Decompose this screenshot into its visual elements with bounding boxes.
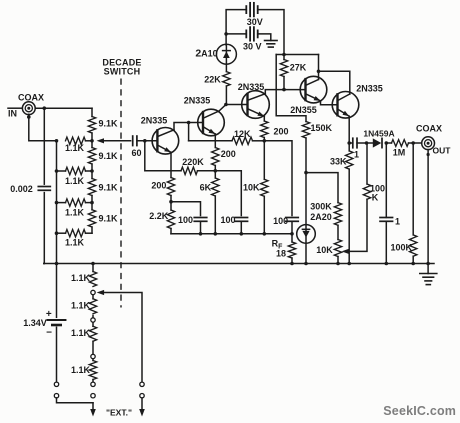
wire 2.2K bottom to RC bus bbox=[170, 229, 172, 234]
battery B3 1.34V bbox=[48, 320, 66, 325]
resistor R1 1.1K row1 bbox=[66, 137, 86, 144]
svg-text:2N335: 2N335 bbox=[184, 95, 211, 105]
label 10K pot bbox=[316, 245, 333, 255]
node 33K bus junction bbox=[347, 262, 351, 266]
capacitor C7 1 bbox=[380, 218, 393, 222]
svg-text:18: 18 bbox=[276, 249, 286, 259]
terminal chain node 2 bbox=[91, 318, 95, 322]
wire 12K right to Q3 emitter node bbox=[253, 140, 265, 142]
svg-text:2N355: 2N355 bbox=[290, 105, 317, 115]
label 1.1K row4 bbox=[65, 238, 85, 248]
wire coax out shield down bbox=[427, 150, 430, 264]
label 1.1K row3 bbox=[65, 208, 85, 218]
node 10K bus junction bbox=[263, 232, 267, 236]
node 100K bus junction bbox=[411, 262, 415, 266]
label 100 C5 bbox=[273, 216, 288, 226]
wire battery rail left corner bbox=[226, 10, 246, 34]
terminal chain node 1 bbox=[91, 290, 95, 294]
wire 9.1K chain top bbox=[91, 108, 93, 116]
wire R17 to 12K node bbox=[263, 138, 265, 141]
resistor R8 9.1K bbox=[88, 210, 95, 227]
svg-text:100: 100 bbox=[220, 215, 235, 225]
svg-text:1.1K: 1.1K bbox=[65, 143, 85, 153]
svg-text:COAX: COAX bbox=[18, 92, 44, 102]
label 22K bbox=[204, 75, 221, 85]
resistor R30 1.1K lower4 bbox=[89, 359, 96, 382]
svg-text:200: 200 bbox=[273, 127, 288, 137]
node C4 bus junction bbox=[240, 232, 244, 236]
capacitor C3 100 bbox=[194, 218, 207, 222]
svg-text:9.1K: 9.1K bbox=[99, 118, 119, 128]
ground symbol right bbox=[420, 274, 437, 285]
wire Q3 emitter down bbox=[263, 116, 265, 121]
svg-text:1.34V: 1.34V bbox=[23, 318, 47, 328]
resistor R26 100K bbox=[410, 235, 417, 256]
label plus bbox=[46, 309, 52, 320]
resistor R3 1.1K row3 bbox=[57, 199, 93, 206]
label 1.1K lower1 bbox=[71, 273, 91, 283]
svg-text:2.2K: 2.2K bbox=[149, 211, 169, 221]
label 1.1K lower3 bbox=[71, 328, 91, 338]
label K (of 100K) bbox=[372, 193, 379, 203]
ext arrow right bbox=[139, 398, 145, 417]
svg-text:1.1K: 1.1K bbox=[71, 365, 91, 375]
wire lower chain top bbox=[92, 264, 94, 272]
svg-text:−: − bbox=[46, 328, 52, 339]
wire 100K-stacked top lead bbox=[366, 144, 368, 185]
decade switch wiper arrow (selector) bbox=[97, 138, 131, 143]
wire chain seg2 bbox=[91, 164, 93, 179]
node decade tap 3 bbox=[90, 201, 94, 205]
label 9.1K (2) bbox=[99, 151, 119, 161]
transistor Q4 2N355 bbox=[300, 76, 327, 103]
label 100 C4 bbox=[220, 215, 235, 225]
node C7 bus junction bbox=[385, 262, 389, 266]
resistor R6 9.1K bbox=[88, 148, 95, 165]
label 1M bbox=[393, 148, 406, 158]
resistor R22 10K (pot) bbox=[334, 240, 341, 257]
svg-text:2N335: 2N335 bbox=[238, 82, 265, 92]
resistor R26 100K output leads bbox=[412, 143, 414, 264]
resistor R16 RF 18 bbox=[288, 242, 295, 258]
battery B1 30V bbox=[246, 3, 257, 17]
wire 27K leads bbox=[283, 55, 285, 90]
svg-text:1: 1 bbox=[395, 217, 400, 227]
label 2N355 Q4 bbox=[290, 105, 317, 115]
node 6K bus junction bbox=[214, 232, 218, 236]
terminal chain bottom B bbox=[91, 394, 95, 398]
resistor R17 200 (Q3 emitter) bbox=[261, 121, 268, 138]
wire node to 10K bbox=[263, 141, 265, 180]
resistor R23 1M bbox=[392, 140, 409, 147]
diode D3 1N459A bbox=[373, 138, 382, 147]
svg-text:300K: 300K bbox=[310, 202, 332, 212]
svg-text:200: 200 bbox=[151, 180, 166, 190]
ground bus wire bbox=[44, 263, 434, 265]
node Q4 collector junction bbox=[317, 70, 321, 74]
wire input top from COAX IN to 9.1K chain bbox=[8, 107, 92, 109]
label 2N335 Q5 bbox=[356, 84, 383, 94]
svg-text:1.1K: 1.1K bbox=[71, 328, 91, 338]
diode D1 2A10 bbox=[216, 44, 236, 64]
capacitor C1 0.002 bbox=[38, 187, 50, 191]
node Q5 emitter output node bbox=[347, 141, 351, 145]
label 1 C6 bbox=[354, 150, 359, 160]
svg-text:SWITCH: SWITCH bbox=[104, 66, 141, 76]
svg-text:OUT: OUT bbox=[433, 146, 452, 156]
coax connector J1 input bbox=[22, 102, 35, 115]
wire bus to ground right bbox=[427, 264, 429, 274]
terminal battery bottom B bbox=[54, 394, 58, 398]
node row3 left bbox=[55, 201, 59, 205]
svg-text:1M: 1M bbox=[393, 148, 406, 158]
label 200 Q2 emitter bbox=[221, 149, 236, 159]
resistor R14 12K bbox=[232, 137, 253, 144]
resistor R2 1.1K row2 bbox=[57, 167, 93, 174]
node 2A20 bus junction bbox=[304, 262, 308, 266]
svg-text:200: 200 bbox=[221, 149, 236, 159]
left rail wire bbox=[56, 141, 58, 264]
node Q2 base branch bbox=[187, 121, 191, 125]
svg-text:1.1K: 1.1K bbox=[71, 273, 91, 283]
resistor R25 100K stacked bbox=[363, 184, 370, 199]
svg-text:1.1K: 1.1K bbox=[65, 238, 85, 248]
battery B2 30V bbox=[246, 27, 257, 41]
resistor R13 6K bbox=[212, 178, 219, 196]
wire Q3 collector up and right bbox=[265, 90, 305, 94]
label 33K bbox=[330, 156, 347, 166]
capacitor C5 100 bbox=[286, 218, 299, 222]
wire Q1 base feedback down-right bbox=[145, 141, 181, 171]
label 150K bbox=[311, 123, 333, 133]
label 0.002 bbox=[10, 184, 33, 194]
transistor Q5 2N335 bbox=[332, 92, 359, 119]
label 2A20 bbox=[310, 212, 332, 222]
svg-text:1: 1 bbox=[354, 150, 359, 160]
node Q1 base junction bbox=[143, 139, 147, 143]
svg-text:6K: 6K bbox=[200, 183, 212, 193]
terminal battery bottom A bbox=[54, 382, 58, 386]
svg-text:+: + bbox=[46, 309, 52, 320]
node 100K-stacked top bbox=[365, 141, 369, 145]
wire Q3 emitter node right bbox=[264, 141, 292, 216]
node Q2 collector / Q3 base junction bbox=[224, 103, 228, 107]
wire 10K to ground bus bbox=[337, 257, 339, 264]
RC bus wire bbox=[171, 233, 292, 235]
label 30V B1 bbox=[247, 17, 263, 27]
svg-text:2A20: 2A20 bbox=[310, 212, 332, 222]
wire chain seg a bbox=[92, 295, 94, 299]
label 9.1K (3) bbox=[99, 182, 119, 192]
wire R10 to node bbox=[170, 196, 172, 211]
svg-text:220K: 220K bbox=[182, 157, 204, 167]
label 220K bbox=[182, 157, 204, 167]
transistor Q3 2N335 bbox=[242, 91, 270, 119]
svg-text:K: K bbox=[372, 193, 379, 203]
capacitor C7 1 leads bbox=[385, 143, 387, 264]
node 27K top bbox=[282, 53, 286, 57]
label 200 Q3 emitter bbox=[273, 127, 288, 137]
label 1N459A bbox=[363, 129, 394, 139]
wire Q5 emitter down to output line bbox=[348, 116, 350, 143]
resistor R24 33K leads bbox=[348, 143, 350, 264]
label 9.1K (1) bbox=[99, 118, 119, 128]
resistor R18 22K bbox=[223, 72, 230, 86]
transistor Q2 2N335 bbox=[198, 109, 225, 136]
capacitor C2 60 bbox=[133, 136, 137, 146]
node decade chain bus junction bbox=[91, 262, 95, 266]
label OUT bbox=[433, 146, 452, 156]
label 1.1K lower2 bbox=[71, 300, 91, 310]
terminal ext A bbox=[140, 382, 144, 386]
wire rail right corner to Q4 collector bbox=[318, 55, 320, 72]
node decade tap 1 bbox=[90, 139, 94, 143]
svg-text:100K: 100K bbox=[390, 242, 412, 252]
svg-text:2N335: 2N335 bbox=[141, 115, 168, 125]
node row1 left rail junction bbox=[55, 139, 59, 143]
resistor R27 1.1K lower1 bbox=[89, 272, 96, 287]
ext wiper arrow line bbox=[97, 290, 142, 382]
svg-text:30 V: 30 V bbox=[243, 42, 262, 52]
resistor R4 1.1K row4 bbox=[57, 230, 93, 237]
capacitor C4 100 bbox=[235, 218, 248, 222]
watermark SeekIC.com bbox=[383, 404, 456, 418]
resistor R12 200 (Q2 emitter) bbox=[212, 148, 219, 166]
wire Q4 emitter to Q5 base bbox=[321, 101, 338, 105]
svg-text:2N335: 2N335 bbox=[356, 84, 383, 94]
resistor R15 10K bbox=[261, 179, 268, 196]
wire battery B1 right to 27K top bbox=[258, 10, 284, 55]
wire Q2 collector node to Q3 base bbox=[226, 104, 248, 106]
label 2N335 Q2 bbox=[184, 95, 211, 105]
label EXT bbox=[106, 407, 132, 417]
label 9.1K (4) bbox=[99, 214, 119, 224]
wire collector rail to Q5 bbox=[319, 71, 350, 94]
svg-text:0.002: 0.002 bbox=[10, 184, 33, 194]
node output junction bbox=[411, 141, 415, 145]
node 27K bottom junction bbox=[282, 88, 286, 92]
transistor Q1 2N335 bbox=[152, 128, 179, 155]
wire 0.002 branch down bbox=[43, 108, 45, 263]
label 100 (of 100K) bbox=[370, 184, 385, 194]
wire chain seg b bbox=[92, 316, 94, 327]
resistor R29 1.1K lower3 bbox=[89, 326, 96, 341]
label RF bbox=[272, 239, 284, 251]
wire node to C3 cap bbox=[171, 202, 201, 216]
node 10K bus junction 2 bbox=[336, 262, 340, 266]
label COAX (input) bbox=[18, 92, 44, 102]
node coax shield bus junction bbox=[426, 262, 430, 266]
node C3 bus junction bbox=[199, 232, 203, 236]
label 1.1K row2 bbox=[65, 176, 85, 186]
wire battery node to 2A10 bbox=[225, 34, 227, 72]
wire 150K down to divider node bbox=[305, 138, 307, 264]
svg-text:COAX: COAX bbox=[416, 124, 442, 134]
label SWITCH bbox=[104, 66, 141, 76]
label 1.34V bbox=[23, 318, 47, 328]
resistor R24 33K bbox=[346, 151, 353, 169]
wire Q1 emitter down bbox=[170, 152, 172, 177]
wire output line segs bbox=[349, 142, 364, 144]
capacitor C6 1 (output) bbox=[353, 138, 357, 148]
node row2 left bbox=[55, 169, 59, 173]
wire 22K to Q2 collector node bbox=[225, 86, 228, 105]
svg-text:1.1K: 1.1K bbox=[65, 208, 85, 218]
wire B2 left lead bbox=[226, 33, 246, 35]
wire bias line from rail to 150K bbox=[276, 55, 306, 122]
wire RF node down bbox=[291, 234, 293, 242]
resistor R21 300K bbox=[334, 203, 341, 226]
svg-text:60: 60 bbox=[131, 148, 141, 158]
label DECADE bbox=[102, 58, 141, 68]
svg-text:"EXT.": "EXT." bbox=[106, 407, 132, 417]
label COAX out bbox=[416, 124, 442, 134]
wire chain seg3 bbox=[91, 196, 93, 210]
label 100K bbox=[390, 242, 412, 252]
wire C3 to RC bus bbox=[200, 221, 202, 233]
wire battery column bbox=[56, 264, 58, 383]
svg-text:2A10: 2A10 bbox=[195, 48, 217, 60]
label 27K bbox=[290, 63, 307, 73]
svg-text:9.1K: 9.1K bbox=[99, 151, 119, 161]
node Q1 emitter RC node bbox=[169, 200, 173, 204]
coax connector J2 output bbox=[422, 137, 435, 150]
node row4 left bbox=[55, 231, 59, 235]
wire RF to ground bus bbox=[291, 258, 293, 264]
svg-text:9.1K: 9.1K bbox=[99, 182, 119, 192]
wire 220K to Q2 emitter node bbox=[198, 170, 216, 172]
resistor R5 9.1K bbox=[88, 117, 95, 134]
wire +30V rail bbox=[276, 54, 318, 56]
label 2N335 Q1 bbox=[141, 115, 168, 125]
svg-text:150K: 150K bbox=[311, 123, 333, 133]
node Q2 emitter node bbox=[214, 169, 218, 173]
decade switch dashed line bbox=[120, 79, 122, 308]
svg-text:10K: 10K bbox=[316, 245, 333, 255]
wire emitter node to C4 bbox=[215, 171, 241, 216]
label IN bbox=[8, 108, 17, 118]
svg-text:22K: 22K bbox=[204, 75, 221, 85]
node divider node (150K/300K/2A20) bbox=[304, 171, 308, 175]
node junction on input wire (0.002 branch) bbox=[43, 106, 47, 110]
resistor R10 200 (Q1 emitter) bbox=[167, 178, 174, 196]
wire 12K line left bbox=[189, 140, 232, 142]
wire chain seg c bbox=[92, 341, 94, 354]
label 18 bbox=[276, 249, 286, 259]
terminal ext B bbox=[140, 394, 144, 398]
label 2N335 Q3 bbox=[238, 82, 265, 92]
resistor R19 27K bbox=[280, 60, 287, 77]
label 300K bbox=[310, 202, 332, 212]
wire C2 to Q1 base bbox=[137, 140, 157, 142]
resistor R9 220K bbox=[181, 167, 198, 174]
wire 300K to 10K bbox=[337, 225, 339, 239]
label 12K bbox=[234, 129, 251, 139]
terminal chain node 3 bbox=[91, 354, 95, 358]
svg-text:10K: 10K bbox=[243, 183, 260, 193]
svg-text:12K: 12K bbox=[234, 129, 251, 139]
wire Q2 emitter down bbox=[214, 134, 216, 148]
wire 1M to coax out bbox=[409, 142, 422, 144]
svg-text:IN: IN bbox=[8, 108, 17, 118]
svg-text:9.1K: 9.1K bbox=[99, 214, 119, 224]
wire divider node right to 300K bbox=[306, 173, 338, 203]
label 1.1K lower4 bbox=[71, 365, 91, 375]
resistor R11 2.2K bbox=[167, 210, 174, 229]
ext arrow left bbox=[90, 403, 96, 417]
svg-text:SeekIC.com: SeekIC.com bbox=[383, 404, 456, 418]
wire COAX IN center conductor down to decade row 1 bbox=[27, 114, 57, 141]
label 100 C3 bbox=[178, 215, 193, 225]
svg-text:100: 100 bbox=[178, 215, 193, 225]
wire Q1 collector up to Q2 base bbox=[174, 123, 203, 130]
node battery rail bus junction bbox=[55, 262, 59, 266]
node Q3 emitter node bbox=[263, 139, 267, 143]
label 60 bbox=[131, 148, 141, 158]
node RF top junction bbox=[290, 232, 294, 236]
svg-text:100: 100 bbox=[273, 216, 288, 226]
wire B2 right to ground bbox=[258, 34, 271, 41]
label 6K bbox=[200, 183, 212, 193]
wire diode to 1M bbox=[386, 142, 391, 144]
svg-text:1.1K: 1.1K bbox=[65, 176, 85, 186]
label 2A10 bbox=[195, 48, 217, 60]
svg-text:33K: 33K bbox=[330, 156, 347, 166]
wire C4 to RC bus bbox=[240, 221, 242, 233]
wire chain bottom to row4 bbox=[91, 227, 93, 233]
node battery junction bbox=[224, 32, 228, 36]
label 2.2K bbox=[149, 211, 169, 221]
wire chain seg1 bbox=[91, 133, 93, 148]
node decade tap 2 bbox=[90, 169, 94, 173]
wire Q4 collector lead bbox=[318, 71, 320, 79]
wiper arrow for 10K pot bbox=[342, 199, 368, 254]
wire to diode bbox=[367, 142, 373, 144]
wire R12 to node bbox=[214, 166, 216, 179]
resistor R7 9.1K bbox=[88, 179, 95, 196]
resistor R20 150K bbox=[302, 122, 309, 139]
wire C5 to RF node bbox=[291, 221, 293, 233]
resistor R28 1.1K lower2 bbox=[89, 299, 96, 314]
label minus bbox=[46, 328, 52, 339]
svg-text:1N459A: 1N459A bbox=[363, 129, 394, 139]
terminal chain bottom A bbox=[91, 382, 95, 386]
label 200 Q1 emitter bbox=[151, 180, 166, 190]
node RF bus junction bbox=[290, 262, 294, 266]
svg-text:1.1K: 1.1K bbox=[71, 300, 91, 310]
svg-text:30V: 30V bbox=[247, 17, 263, 27]
svg-text:27K: 27K bbox=[290, 63, 307, 73]
wire Q2 collector up to 22K node bbox=[219, 105, 226, 111]
wire 10K to RC bus bbox=[263, 196, 265, 234]
node diode cathode junction bbox=[385, 141, 389, 145]
wire row1 right bbox=[86, 140, 93, 142]
label 10K first bbox=[243, 183, 260, 193]
label 1.1K row1 bbox=[65, 143, 85, 153]
wire battery terminal to ext arrow bbox=[57, 398, 94, 403]
wire Q2 base branch down to 12K line bbox=[188, 123, 190, 141]
diode D2 2A20 bbox=[297, 225, 316, 244]
label 30V B2 bbox=[243, 42, 262, 52]
wire 6K to RC bus bbox=[214, 196, 216, 234]
ground symbol top bbox=[265, 41, 278, 48]
label 1 C7 bbox=[395, 217, 400, 227]
